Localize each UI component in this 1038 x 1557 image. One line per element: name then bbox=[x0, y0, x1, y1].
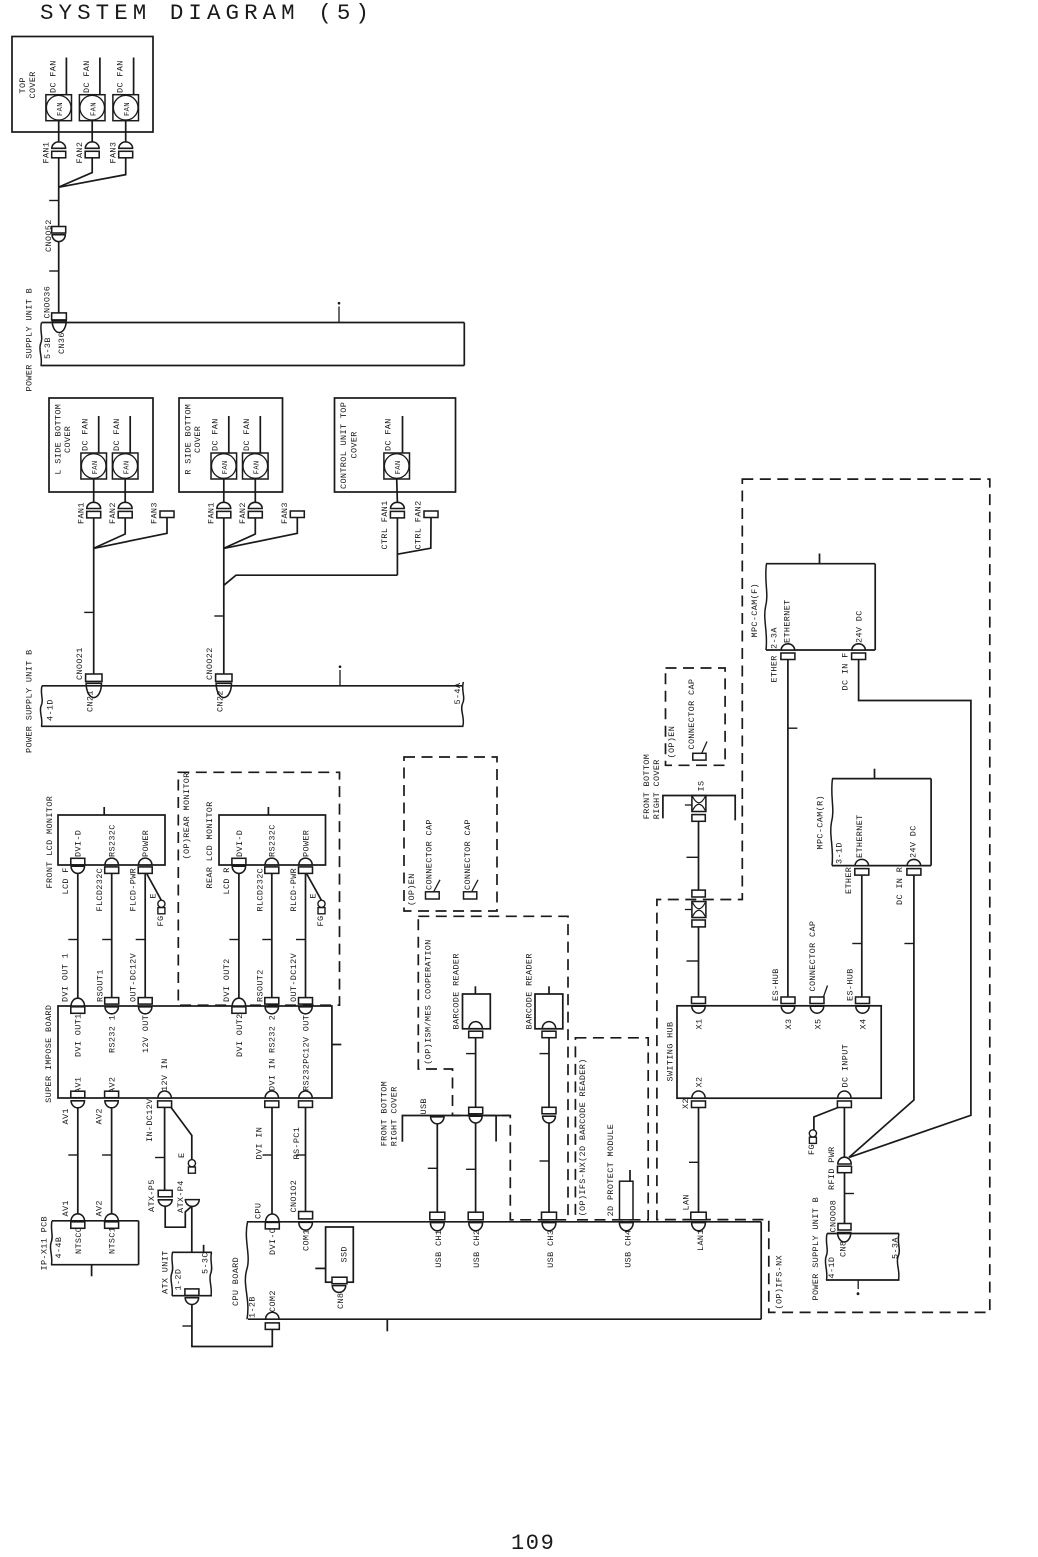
svg-text:12V OUT: 12V OUT bbox=[141, 1015, 151, 1053]
svg-text:CONNECTOR CAP: CONNECTOR CAP bbox=[425, 819, 435, 890]
connector RS232C (front) bbox=[105, 824, 119, 873]
svg-text:CTRL FAN2: CTRL FAN2 bbox=[413, 500, 423, 549]
fan FAN1 (top cover) bbox=[46, 58, 72, 121]
svg-text:COM2: COM2 bbox=[268, 1290, 278, 1312]
svg-text:X4: X4 bbox=[859, 1019, 869, 1030]
wire fan2 to connector FAN2 bbox=[91, 121, 93, 143]
connector CN0102 COM1 bbox=[289, 1180, 312, 1251]
svg-text:TOP: TOP bbox=[18, 77, 28, 93]
connector barcode reader 2 bbox=[542, 1022, 556, 1038]
svg-text:SWITING HUB: SWITING HUB bbox=[666, 1022, 676, 1082]
connector POWER (front) bbox=[138, 830, 152, 874]
connector POWER (rear) bbox=[299, 830, 313, 874]
connector AV1 bbox=[61, 1077, 85, 1125]
svg-text:109: 109 bbox=[511, 1531, 555, 1556]
connector CN0022 bbox=[205, 647, 232, 681]
svg-text:E: E bbox=[177, 1153, 187, 1158]
svg-text:ATX-P5: ATX-P5 bbox=[147, 1179, 157, 1212]
svg-text:5-4A: 5-4A bbox=[453, 682, 463, 704]
svg-text:FAN: FAN bbox=[254, 460, 262, 474]
svg-text:R SIDE BOTTOM: R SIDE BOTTOM bbox=[184, 404, 194, 475]
svg-text:LCD R: LCD R bbox=[222, 867, 232, 894]
connector above IS 2 bbox=[692, 890, 705, 897]
connector cap 2 bbox=[463, 819, 478, 899]
svg-text:CPU BOARD: CPU BOARD bbox=[231, 1257, 241, 1306]
svg-text:DC IN F: DC IN F bbox=[840, 652, 850, 690]
svg-text:FAN: FAN bbox=[123, 460, 131, 474]
connector CN8 socket on power supply 3 bbox=[838, 1233, 851, 1258]
wire AV2 to NTSC1 bbox=[102, 1107, 112, 1213]
connector barcode reader 1 bbox=[469, 1022, 483, 1038]
svg-text:AV2: AV2 bbox=[95, 1200, 105, 1216]
svg-text:FAN1: FAN1 bbox=[76, 502, 86, 524]
connector RS232C (rear) bbox=[265, 824, 279, 873]
svg-text:COVER: COVER bbox=[193, 426, 203, 453]
svg-text:POWER SUPPLY UNIT B: POWER SUPPLY UNIT B bbox=[25, 288, 35, 392]
connector ETHERNET (cam F) bbox=[770, 599, 795, 682]
svg-text:NTSCO: NTSCO bbox=[74, 1227, 84, 1254]
fan FAN1 (L side) bbox=[81, 416, 107, 479]
svg-text:CN8: CN8 bbox=[838, 1241, 848, 1257]
svg-text:USB CH4: USB CH4 bbox=[624, 1230, 634, 1268]
svg-text:MPC-CAM(F): MPC-CAM(F) bbox=[750, 583, 760, 638]
svg-text:ATX-P4: ATX-P4 bbox=[176, 1180, 186, 1213]
svg-text:24V DC: 24V DC bbox=[909, 825, 919, 858]
wire RFID PWR to CN0008 bbox=[845, 1173, 855, 1224]
wire IS1 to IS2 bbox=[687, 821, 699, 890]
svg-text:LCD F: LCD F bbox=[61, 867, 71, 894]
svg-text:USB: USB bbox=[419, 1098, 429, 1114]
dashed box (OP)EN ethernet cap bbox=[666, 668, 726, 765]
svg-text:CN22: CN22 bbox=[215, 690, 225, 712]
box CONTROL UNIT TOP COVER bbox=[335, 398, 456, 492]
wire IS2 to hub X1 bbox=[687, 927, 699, 997]
svg-text:FRONT BOTTOM: FRONT BOTTOM bbox=[642, 754, 652, 819]
connector barcode 1 to USB CH2 bbox=[469, 1107, 483, 1123]
svg-text:X1: X1 bbox=[694, 1019, 704, 1030]
svg-text:LAN: LAN bbox=[681, 1194, 691, 1210]
svg-text:COVER: COVER bbox=[63, 426, 73, 453]
svg-text:AV2: AV2 bbox=[94, 1108, 104, 1124]
ground FG (rear monitor) bbox=[307, 874, 326, 927]
svg-text:4-1D: 4-1D bbox=[827, 1257, 837, 1279]
svg-text:ETHER: ETHER bbox=[770, 655, 780, 682]
svg-text:ETHERNET: ETHERNET bbox=[855, 814, 865, 858]
connector FAN2 (L side) bbox=[108, 502, 132, 524]
svg-text:2-3A: 2-3A bbox=[770, 627, 780, 649]
svg-text:FAN: FAN bbox=[124, 102, 132, 116]
svg-text:DC FAN: DC FAN bbox=[211, 418, 221, 451]
wire LCD F DVI cable bbox=[68, 873, 78, 998]
svg-text:CTRL FAN1: CTRL FAN1 bbox=[380, 500, 390, 549]
wire barcode 1 to mid connector bbox=[466, 1038, 476, 1108]
connector X2 bbox=[681, 1077, 706, 1109]
fan (control unit) bbox=[384, 416, 410, 479]
svg-text:DC FAN: DC FAN bbox=[116, 60, 126, 93]
svg-text:DVI OUT1: DVI OUT1 bbox=[74, 1013, 84, 1057]
connector CN36 socket on power supply bbox=[52, 321, 67, 354]
svg-text:CONNECTOR CAP: CONNECTOR CAP bbox=[687, 679, 697, 750]
svg-text:E: E bbox=[309, 893, 319, 898]
box IP-X11 PCB (4-4B) bbox=[40, 1216, 139, 1271]
svg-text:RFID PWR: RFID PWR bbox=[827, 1146, 837, 1190]
wire FAN2 diagonal to junction bbox=[59, 158, 92, 187]
svg-text:ES-HUB: ES-HUB bbox=[846, 968, 856, 1001]
wire LCD R DVI cable bbox=[229, 873, 239, 998]
svg-text:SYSTEM DIAGRAM (5): SYSTEM DIAGRAM (5) bbox=[40, 0, 374, 26]
svg-text:IS: IS bbox=[697, 781, 707, 792]
svg-text:FAN2: FAN2 bbox=[75, 142, 85, 164]
wire L FAN1 to junction to CN0021 bbox=[93, 518, 95, 674]
svg-text:(OP)EN: (OP)EN bbox=[667, 726, 677, 759]
box CPU BOARD (1-2B) bbox=[231, 1222, 761, 1319]
ground E (12V IN) bbox=[171, 1107, 195, 1173]
connector DC INPUT bbox=[837, 1044, 851, 1108]
svg-text:CONNECTOR CAP: CONNECTOR CAP bbox=[808, 921, 818, 992]
wire 12V IN to ATX-P5 bbox=[155, 1107, 165, 1190]
wire junction to CN0052 bbox=[58, 187, 60, 227]
connector RS232 2 bbox=[255, 969, 278, 1053]
svg-text:CONTROL UNIT TOP: CONTROL UNIT TOP bbox=[339, 402, 349, 489]
svg-text:DVI IN: DVI IN bbox=[268, 1058, 278, 1091]
wire DVI IN to CPU DVI-O bbox=[263, 1107, 273, 1214]
box ATX UNIT (1-2D / 5-3C) bbox=[161, 1245, 212, 1296]
connector ETHERNET (cam R) bbox=[844, 814, 869, 894]
svg-text:ES-HUB: ES-HUB bbox=[771, 968, 781, 1001]
svg-text:AV1: AV1 bbox=[61, 1200, 71, 1216]
wire RS-PC1 to CN0102 bbox=[296, 1107, 306, 1211]
connector X5 with cap bbox=[808, 921, 828, 1030]
svg-text:(OP)ISM/MES COOPERATION: (OP)ISM/MES COOPERATION bbox=[423, 939, 433, 1064]
svg-text:CNOO22: CNOO22 bbox=[205, 647, 215, 680]
stub below CPU board bbox=[386, 1319, 388, 1331]
wire R fan2 to connector bbox=[254, 479, 256, 503]
connector ATX-P4 (unused) bbox=[176, 1180, 199, 1213]
connector CN8 (SSD) bbox=[332, 1277, 347, 1309]
svg-text:FAN: FAN bbox=[57, 102, 65, 116]
svg-text:USB CH1: USB CH1 bbox=[434, 1230, 444, 1268]
svg-text:OUT-DC12V: OUT-DC12V bbox=[289, 952, 299, 1002]
svg-text:ETHER: ETHER bbox=[844, 867, 854, 894]
connector USB (cover) bbox=[419, 1098, 444, 1124]
box L SIDE BOTTOM COVER bbox=[49, 398, 153, 492]
svg-text:RS232PC: RS232PC bbox=[301, 1053, 311, 1091]
svg-text:FAN: FAN bbox=[395, 460, 403, 474]
connector COM2 bbox=[265, 1290, 279, 1329]
svg-text:FAN: FAN bbox=[92, 460, 100, 474]
connector FAN3 (R side, unused) bbox=[280, 502, 304, 524]
svg-text:DVI OUT2: DVI OUT2 bbox=[235, 1013, 245, 1057]
svg-text:CN8: CN8 bbox=[336, 1293, 346, 1309]
svg-text:AV1: AV1 bbox=[61, 1108, 71, 1124]
svg-text:SUPER IMPOSE BOARD: SUPER IMPOSE BOARD bbox=[44, 1005, 54, 1103]
wire L fan2 to connector bbox=[124, 479, 126, 503]
svg-text:DVI-D: DVI-D bbox=[235, 830, 245, 857]
wire R fan1 to connector bbox=[223, 479, 225, 503]
noise filter IS 2 bbox=[685, 902, 706, 918]
svg-text:1-2B: 1-2B bbox=[247, 1296, 257, 1318]
power supply unit B box (4-1D / 5-4A) bbox=[25, 649, 464, 753]
svg-text:FAN1: FAN1 bbox=[42, 142, 52, 164]
connector DVI-D (front) bbox=[71, 830, 85, 874]
svg-text:OUT-DC12V: OUT-DC12V bbox=[129, 952, 139, 1002]
svg-text:DC FAN: DC FAN bbox=[112, 418, 122, 451]
noise filter IS 1 bbox=[685, 781, 707, 812]
svg-text:DVI OUT2: DVI OUT2 bbox=[222, 958, 232, 1002]
wire R FAN2 diagonal bbox=[224, 518, 255, 548]
svg-text:1-2D: 1-2D bbox=[173, 1269, 183, 1291]
wire AV1 to NTSC0 bbox=[68, 1107, 78, 1213]
svg-text:ETHERNET: ETHERNET bbox=[783, 599, 793, 643]
dashed box (OP)EN connector caps bbox=[404, 757, 497, 911]
svg-text:COM1: COM1 bbox=[302, 1229, 312, 1251]
svg-text:FG: FG bbox=[156, 916, 166, 927]
svg-text:FLCD-PWR: FLCD-PWR bbox=[129, 868, 139, 912]
svg-text:RIGHT COVER: RIGHT COVER bbox=[652, 759, 662, 819]
connector DVI OUT1 bbox=[61, 953, 85, 1057]
wire ctrl fan to connector bbox=[396, 479, 399, 503]
svg-text:FAN3: FAN3 bbox=[109, 142, 119, 164]
wire CTRL FAN2 diagonal bbox=[398, 518, 431, 555]
connector CN0008 bbox=[828, 1200, 851, 1233]
connector DVI IN bbox=[254, 1058, 279, 1159]
svg-text:CONNECTOR CAP: CONNECTOR CAP bbox=[463, 819, 473, 890]
svg-text:5-3B: 5-3B bbox=[43, 337, 53, 359]
fan FAN1 (R side) bbox=[211, 416, 237, 479]
connector RFID PWR bbox=[827, 1146, 851, 1190]
svg-text:RLCD232C: RLCD232C bbox=[255, 868, 265, 912]
connector DVI OUT2 bbox=[222, 958, 246, 1057]
svg-text:DVI OUT 1: DVI OUT 1 bbox=[61, 953, 71, 1002]
front bottom right cover boundary (IS) bbox=[642, 754, 735, 821]
svg-text:FAN: FAN bbox=[90, 102, 98, 116]
wire RLCD-PWR bbox=[289, 868, 306, 998]
svg-text:ATX UNIT: ATX UNIT bbox=[161, 1250, 171, 1294]
svg-text:LAN1: LAN1 bbox=[696, 1229, 706, 1251]
connector CN0021 bbox=[75, 647, 102, 681]
connector X3 bbox=[771, 968, 795, 1029]
svg-text:RS232C: RS232C bbox=[268, 824, 278, 857]
connector RS232 1 bbox=[95, 969, 118, 1053]
connector FAN2 (R side) bbox=[238, 502, 262, 524]
connector ATX bottom bbox=[185, 1289, 199, 1305]
svg-text:RS232C: RS232C bbox=[108, 824, 118, 857]
svg-text:FLCD232C: FLCD232C bbox=[95, 868, 105, 912]
box MPC-CAM(F) (2-3A) bbox=[750, 554, 875, 651]
connector NTSC1 bbox=[95, 1200, 119, 1254]
svg-text:4-1D: 4-1D bbox=[45, 699, 55, 721]
svg-text:DC IN R: DC IN R bbox=[895, 867, 905, 905]
svg-text:E: E bbox=[149, 893, 159, 898]
box SUPER IMPOSE BOARD bbox=[44, 1005, 332, 1103]
wire barcode 2 to mid connector bbox=[540, 1038, 550, 1108]
svg-text:DC FAN: DC FAN bbox=[82, 60, 92, 93]
svg-text:12V OUT: 12V OUT bbox=[301, 1015, 311, 1053]
connector FAN3 bbox=[109, 142, 133, 164]
svg-text:COVER: COVER bbox=[350, 431, 360, 458]
connector barcode 2 to USB CH3 bbox=[542, 1107, 556, 1123]
svg-text:CNOO21: CNOO21 bbox=[75, 647, 85, 680]
svg-text:CPU: CPU bbox=[254, 1203, 264, 1219]
svg-text:(OP)IFS-NX(2D BARCODE READER): (OP)IFS-NX(2D BARCODE READER) bbox=[578, 1058, 588, 1216]
svg-text:X5: X5 bbox=[814, 1019, 824, 1030]
svg-text:FRONT BOTTOM: FRONT BOTTOM bbox=[379, 1081, 389, 1146]
box MPC-CAM(R) (3-1D) bbox=[816, 769, 932, 866]
svg-text:MPC-CAM(R): MPC-CAM(R) bbox=[816, 795, 826, 850]
front bottom right cover boundary (USB) bbox=[379, 1081, 509, 1146]
wire L FAN3 diagonal bbox=[94, 518, 167, 549]
connector FAN1 (L side) bbox=[76, 502, 100, 524]
connector 12V OUT (rear) bbox=[289, 952, 313, 1053]
connector CN0052 bbox=[44, 219, 66, 252]
svg-text:RIGHT COVER: RIGHT COVER bbox=[390, 1086, 400, 1146]
wire CN0052 to CN0036 bbox=[58, 242, 60, 313]
svg-text:CNOO36: CNOO36 bbox=[43, 286, 53, 319]
connector 12V IN bbox=[145, 1058, 172, 1142]
box SWITING HUB bbox=[666, 1006, 882, 1098]
stub on super impose board right edge bbox=[332, 1044, 341, 1046]
svg-text:POWER: POWER bbox=[301, 830, 311, 857]
svg-text:5-3C: 5-3C bbox=[201, 1252, 211, 1274]
svg-text:SSD: SSD bbox=[340, 1246, 350, 1262]
fan FAN2 (R side) bbox=[242, 416, 268, 479]
box R SIDE BOTTOM COVER bbox=[179, 398, 283, 492]
svg-text:FAN: FAN bbox=[222, 460, 230, 474]
svg-text:DC FAN: DC FAN bbox=[242, 418, 252, 451]
connector CN0036 bbox=[43, 286, 67, 320]
wire L fan1 to connector bbox=[93, 479, 95, 503]
connector CTRL FAN2 (unused) bbox=[413, 500, 438, 549]
dashed box (OP)ISM/MES COOPERATION bbox=[418, 916, 568, 1220]
wire ATX-P5 to ATX unit bbox=[165, 1206, 191, 1227]
connector USB CH1 bbox=[430, 1212, 445, 1268]
svg-text:CN21: CN21 bbox=[85, 690, 95, 712]
svg-text:RLCD-PWR: RLCD-PWR bbox=[289, 868, 299, 912]
reference tick on power supply 2 bbox=[339, 665, 342, 685]
connector X4 bbox=[846, 968, 870, 1029]
wire L FAN2 diagonal bbox=[94, 518, 125, 548]
svg-text:FG: FG bbox=[316, 916, 326, 927]
connector USB CH4 bbox=[619, 1223, 633, 1268]
connector X1 bbox=[692, 997, 706, 1030]
box LCD R rear monitor bbox=[205, 801, 325, 894]
wire ATX-P4 to ATX unit bbox=[191, 1206, 193, 1252]
svg-text:COVER: COVER bbox=[28, 71, 38, 98]
wire mid connector to USB CH3 bbox=[540, 1122, 550, 1211]
wire ATX to COM2 bbox=[182, 1305, 272, 1347]
connector RS-PC1 bbox=[292, 1053, 313, 1160]
wire FAN1 down to junction bbox=[58, 158, 60, 187]
connector AV2 bbox=[94, 1077, 118, 1125]
connector ATX-P5 bbox=[147, 1179, 172, 1212]
svg-text:POWER: POWER bbox=[141, 830, 151, 857]
wire 24V DC R to RFID PWR bbox=[849, 875, 914, 1157]
svg-text:(OP)REAR MONITOR: (OP)REAR MONITOR bbox=[182, 772, 192, 859]
connector USB CH2 bbox=[468, 1212, 483, 1268]
svg-text:DC FAN: DC FAN bbox=[81, 418, 91, 451]
svg-text:USB CH3: USB CH3 bbox=[546, 1230, 556, 1268]
svg-text:NTSC1: NTSC1 bbox=[108, 1227, 118, 1254]
connector CN22 socket on power supply bbox=[215, 683, 231, 712]
wire 24V DC F to RFID PWR bbox=[849, 660, 971, 1158]
svg-text:IP-X11 PCB: IP-X11 PCB bbox=[40, 1216, 50, 1271]
connector 24V DC (cam F) bbox=[840, 610, 865, 690]
svg-text:RSOUT1: RSOUT1 bbox=[95, 969, 105, 1002]
svg-text:FAN3: FAN3 bbox=[280, 502, 290, 524]
svg-text:24V DC: 24V DC bbox=[854, 610, 864, 643]
connector NTSC0 bbox=[61, 1200, 85, 1254]
dashed box (OP)REAR MONITOR bbox=[178, 772, 339, 1005]
wire R FAN3 diagonal bbox=[224, 518, 297, 549]
svg-text:POWER SUPPLY UNIT B: POWER SUPPLY UNIT B bbox=[811, 1197, 821, 1301]
wire R FAN1 to junction to CN0022 bbox=[223, 518, 225, 674]
connector FAN3 (L side, unused) bbox=[150, 502, 174, 524]
wire FAN3 diagonal to junction bbox=[59, 158, 126, 187]
svg-text:4-4B: 4-4B bbox=[54, 1237, 64, 1259]
connector USB CH3 bbox=[542, 1212, 557, 1268]
svg-text:RS232 2: RS232 2 bbox=[268, 1015, 278, 1053]
svg-text:12V IN: 12V IN bbox=[160, 1058, 170, 1091]
connector FAN2 bbox=[75, 142, 99, 164]
svg-text:FG: FG bbox=[807, 1144, 817, 1155]
svg-text:FAN2: FAN2 bbox=[108, 502, 118, 524]
svg-text:FAN1: FAN1 bbox=[206, 502, 216, 524]
fan FAN2 (top cover) bbox=[79, 58, 105, 121]
dashed box (OP)IFS-NX main option bbox=[657, 479, 990, 1312]
reference tick on power supply 1 bbox=[338, 302, 341, 323]
box BARCODE READER 2 bbox=[525, 953, 563, 1029]
dashed box (OP)IFS-NX 2D barcode reader bbox=[575, 1038, 648, 1220]
svg-text:DC FAN: DC FAN bbox=[384, 418, 394, 451]
connector 24V DC (cam R) bbox=[895, 825, 921, 905]
connector CTRL FAN1 bbox=[380, 500, 405, 549]
ground FG (front monitor) bbox=[147, 874, 166, 927]
svg-text:BARCODE READER: BARCODE READER bbox=[451, 953, 461, 1029]
power supply unit B box (4-1D / 5-3A) bbox=[811, 1197, 900, 1301]
wire DC INPUT to RFID PWR bbox=[843, 1108, 845, 1158]
svg-text:POWER SUPPLY UNIT B: POWER SUPPLY UNIT B bbox=[25, 649, 35, 753]
svg-text:IN-DC12V: IN-DC12V bbox=[145, 1098, 155, 1142]
svg-text:DC FAN: DC FAN bbox=[49, 60, 59, 93]
connector cap (ethernet) bbox=[687, 679, 707, 760]
connector DVI-D (rear) bbox=[232, 830, 246, 874]
svg-text:DC INPUT: DC INPUT bbox=[841, 1044, 851, 1088]
box SSD bbox=[315, 1227, 353, 1282]
wire mid connector to USB CH2 bbox=[466, 1122, 476, 1211]
wire ethernet F to hub X3 bbox=[788, 660, 798, 998]
svg-text:CNOO52: CNOO52 bbox=[44, 219, 54, 252]
stub below IP-X11 PCB bbox=[91, 1265, 93, 1277]
svg-text:2D PROTECT MODULE: 2D PROTECT MODULE bbox=[606, 1124, 616, 1217]
svg-text:FRONT LCD MONITOR: FRONT LCD MONITOR bbox=[45, 796, 55, 889]
connector FAN1 bbox=[42, 142, 66, 164]
wire fan3 to connector FAN3 bbox=[125, 121, 127, 143]
connector FAN1 (R side) bbox=[206, 502, 230, 524]
svg-text:CNO1O2: CNO1O2 bbox=[289, 1180, 299, 1213]
wire FLCD232C bbox=[95, 868, 112, 998]
fan FAN2 (L side) bbox=[112, 416, 138, 479]
connector 12V OUT bbox=[129, 952, 153, 1053]
svg-text:FAN2: FAN2 bbox=[238, 502, 248, 524]
wire USB to CH1 bbox=[428, 1124, 438, 1212]
wire CTRL FAN1 down bbox=[396, 518, 398, 575]
svg-text:CNOOO8: CNOOO8 bbox=[828, 1200, 838, 1233]
stub and dot below power supply 3 bbox=[857, 1280, 860, 1295]
svg-text:X2: X2 bbox=[694, 1077, 704, 1088]
connector CPU DVI-O bbox=[254, 1203, 280, 1255]
connector LAN1 bbox=[681, 1194, 706, 1251]
svg-text:FAN3: FAN3 bbox=[150, 502, 160, 524]
